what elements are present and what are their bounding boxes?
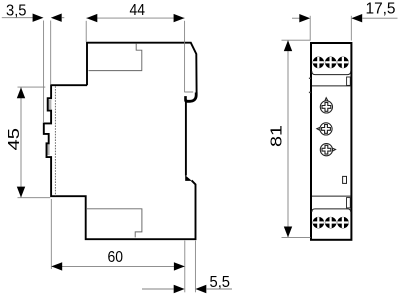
left edge tick lower <box>309 91 311 93</box>
svg-text:44: 44 <box>130 2 146 19</box>
DIN rail hook (front lower) <box>184 93 197 103</box>
svg-text:17,5: 17,5 <box>366 1 396 18</box>
inner seam line top (notch) <box>89 44 143 71</box>
svg-text:5,5: 5,5 <box>210 274 231 291</box>
extension line for 60 left <box>50 199 52 269</box>
extension lines for 3,5 <box>43 21 45 124</box>
grey DIN clip tab upper <box>48 100 52 110</box>
potentiometer 1 <box>320 98 332 113</box>
latch wedge on front edge <box>185 175 192 181</box>
grey DIN clip tab lower <box>46 144 49 155</box>
bottom terminal cover top edge (rounded) <box>312 209 351 212</box>
extension lines for 5,5 / 60 right <box>184 241 186 293</box>
screw top 1 <box>313 57 325 69</box>
bottom inner full line <box>312 195 351 197</box>
module outer rectangle <box>311 43 351 240</box>
screw bottom 3 <box>337 217 349 229</box>
svg-text:45: 45 <box>6 128 23 151</box>
potentiometer 3 <box>320 144 335 156</box>
top right small rect <box>347 77 351 85</box>
bottom right small rect <box>347 198 351 208</box>
svg-text:60: 60 <box>108 249 124 266</box>
screw bottom 2 <box>325 217 337 229</box>
hook top thin line <box>184 91 193 93</box>
screw top 2 <box>325 57 337 69</box>
svg-text:3,5: 3,5 <box>6 3 27 20</box>
extension lines for 44 <box>85 21 87 42</box>
LED indicator <box>343 176 347 183</box>
inner dotted body line near rear <box>54 86 56 196</box>
top terminal cover bottom edge (rounded) <box>312 71 351 74</box>
side view outer outline <box>44 43 197 240</box>
potentiometer 2 <box>317 123 332 135</box>
inner bottom rectangle <box>87 209 142 238</box>
screw top 3 <box>337 57 349 69</box>
extension lines for 45 <box>18 86 46 88</box>
extension lines for 17,5 <box>309 16 311 41</box>
left edge tick upper <box>309 77 311 79</box>
svg-text:81: 81 <box>269 125 286 147</box>
screw bottom 1 <box>313 217 325 229</box>
extension lines for 81 <box>282 39 311 41</box>
top inner full line <box>312 85 351 87</box>
